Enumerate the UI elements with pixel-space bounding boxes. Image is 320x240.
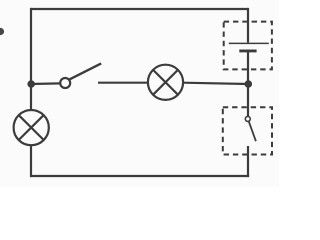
- battery B1 short plate (negative): [239, 49, 256, 52]
- wire middle right (lamp to dot): [183, 83, 248, 84]
- switch S2 lever: [249, 121, 256, 141]
- wire right vertical top (to battery): [247, 8, 249, 43]
- wire bottom horizontal: [30, 175, 249, 177]
- dashed component box upper (battery): [224, 22, 272, 70]
- wire right vertical middle (battery to switch pivot): [247, 52, 249, 117]
- node junction dot right: [245, 80, 253, 88]
- lamp L2 cross: [19, 115, 44, 140]
- wire left vertical upper: [30, 8, 32, 110]
- wire right vertical lower (switch contact to bottom): [247, 146, 249, 177]
- wire middle left (dot to switch): [31, 82, 60, 85]
- wire top horizontal: [31, 8, 248, 10]
- lamp L1 cross: [153, 70, 178, 95]
- lamp L2 (left) circle: [14, 110, 49, 145]
- wire middle centre (switch to lamp): [98, 82, 148, 84]
- lamp L1 (middle) circle: [148, 65, 183, 100]
- list bullet mark: [0, 28, 4, 35]
- switch S1 pivot circle (middle wire, open): [60, 78, 70, 88]
- switch S2 pivot circle (in lower dashed box): [245, 116, 250, 121]
- switch S1 lever: [69, 63, 101, 79]
- wire left vertical lower: [30, 145, 32, 177]
- dashed component box lower (switch): [223, 107, 272, 154]
- battery B1 long plate (positive): [229, 42, 269, 44]
- node junction dot left: [27, 80, 35, 88]
